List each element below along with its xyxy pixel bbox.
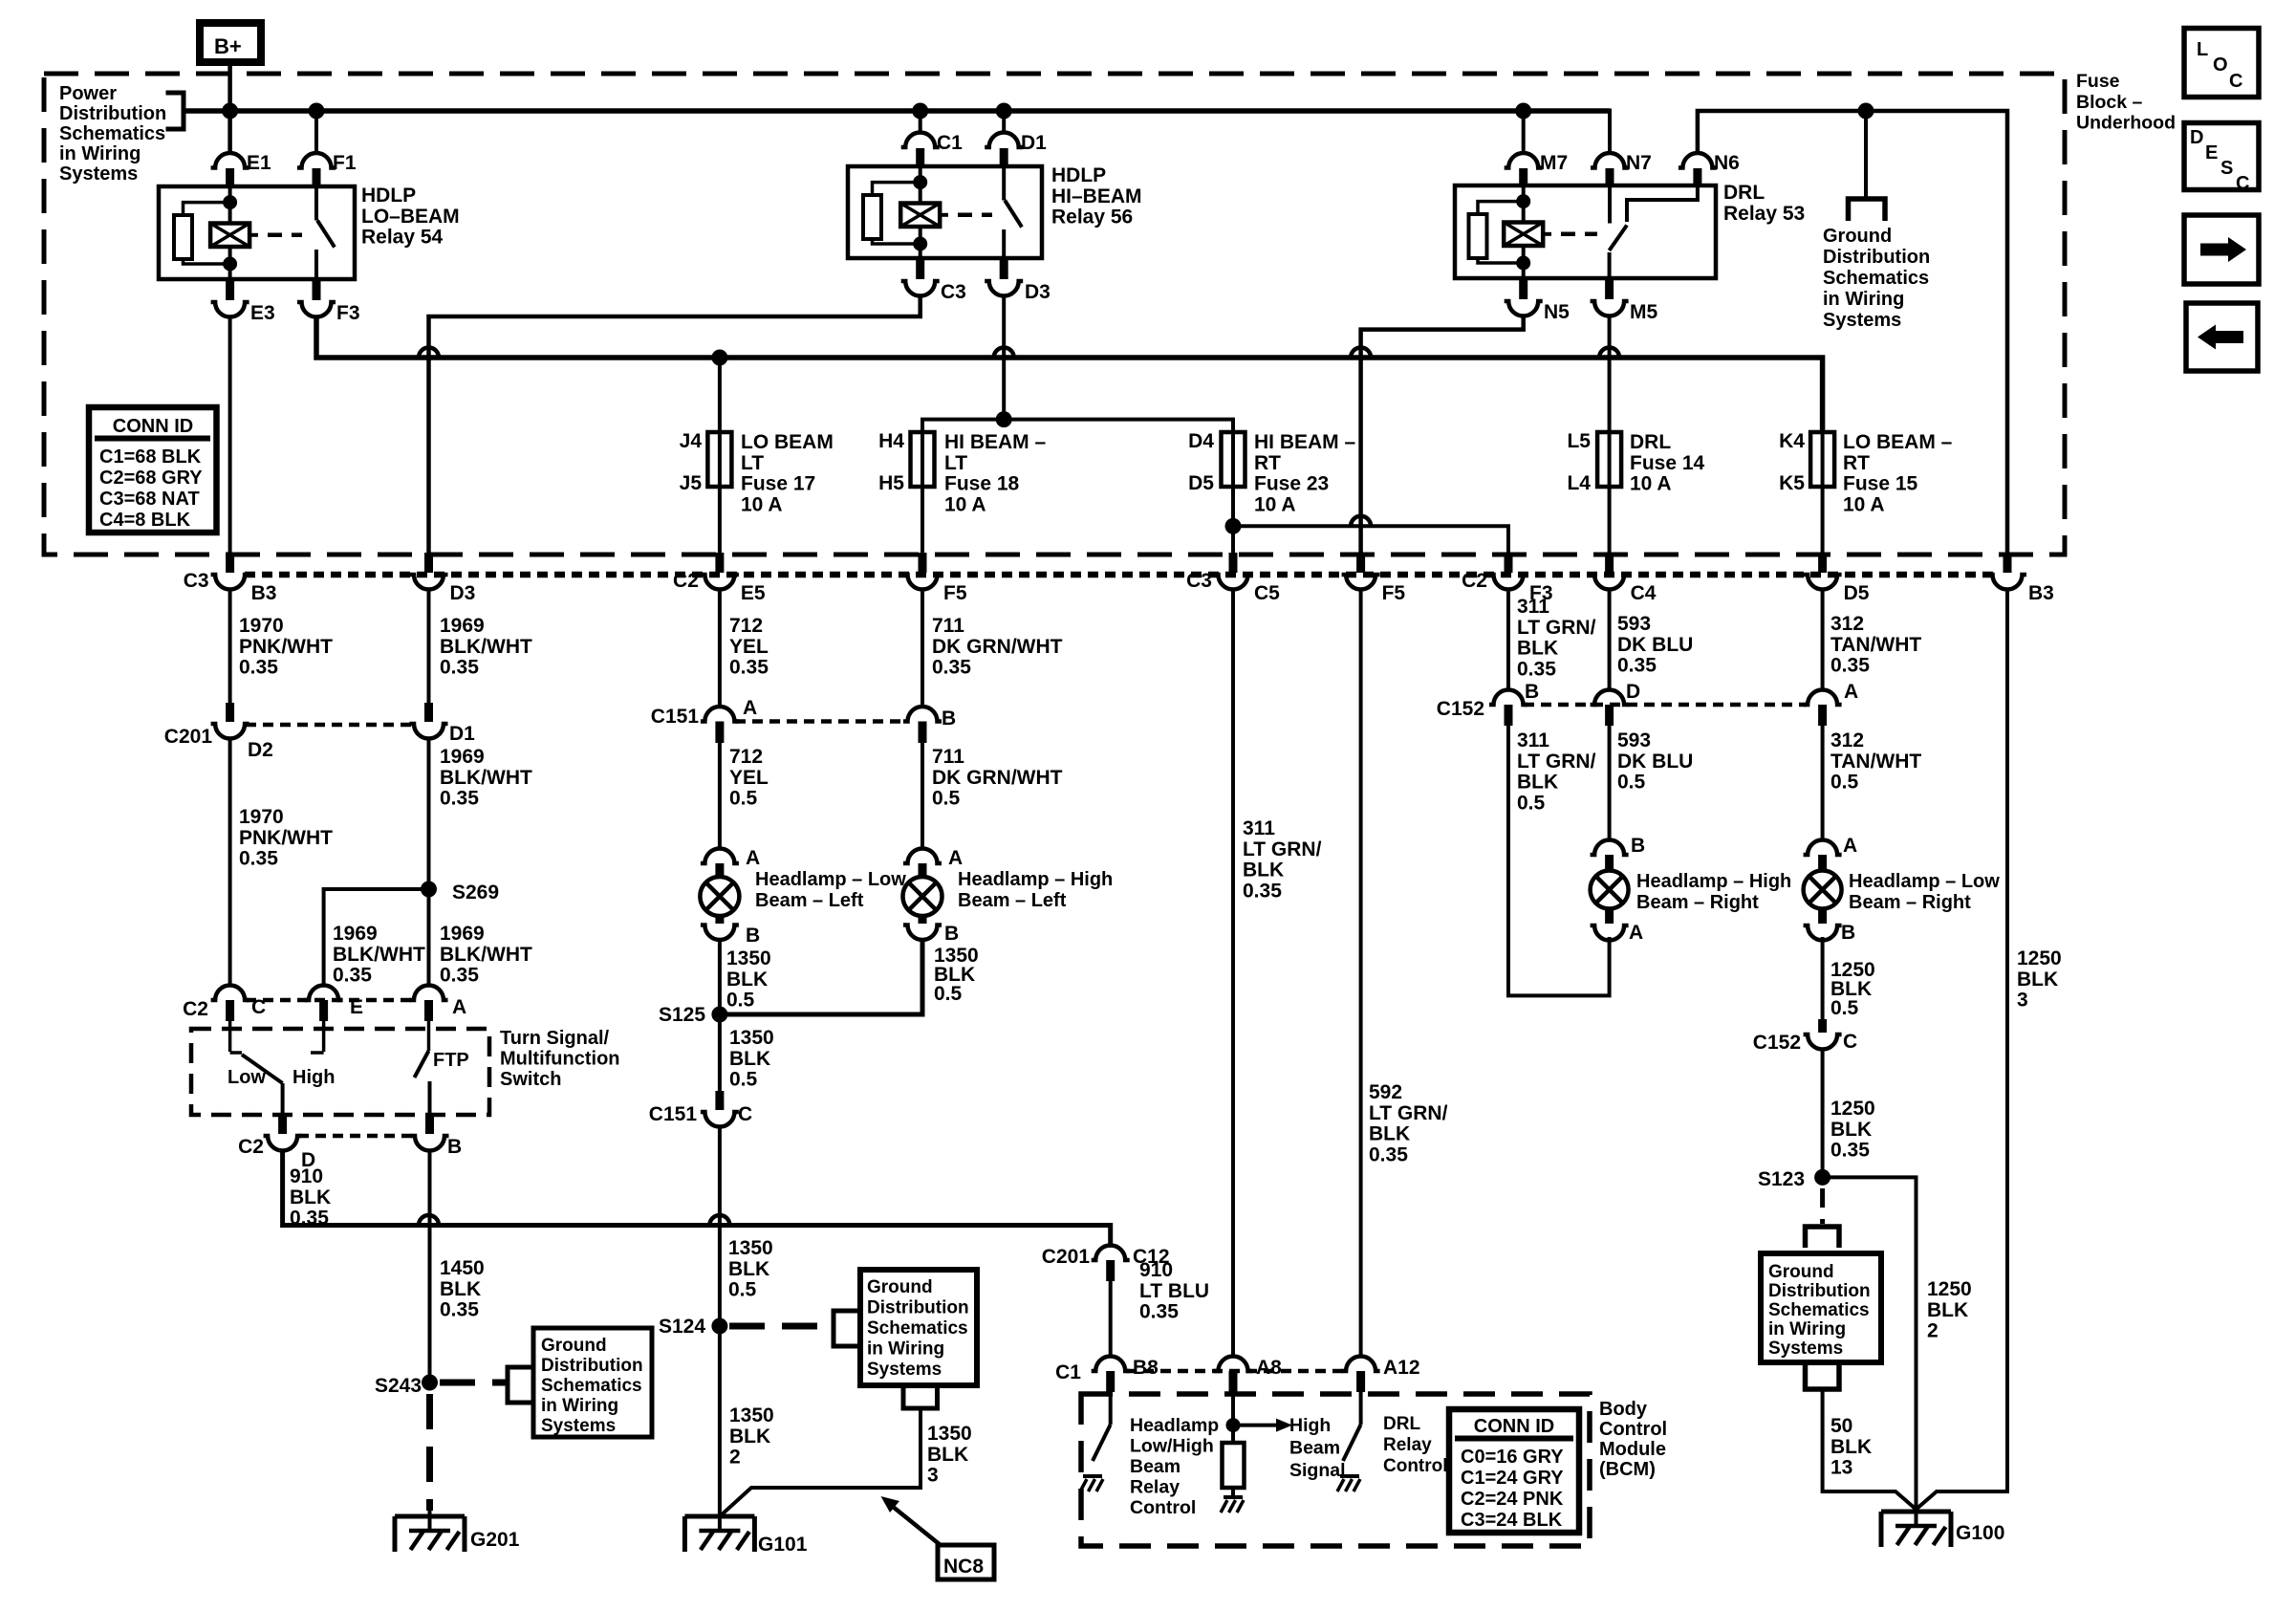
bracket above GDS right box (1806, 1227, 1840, 1248)
connector BCM row dashed line (1126, 1369, 1345, 1374)
dashed stub S123 to GDS bracket (1820, 1188, 1825, 1224)
svg-text:RT: RT (1254, 452, 1281, 474)
svg-text:0.5: 0.5 (729, 788, 758, 810)
wire 1250 BLK to S123 (1821, 1050, 1825, 1177)
svg-text:0.5: 0.5 (726, 990, 755, 1012)
label C (C152 pin) (1843, 1031, 1857, 1053)
svg-text:M7: M7 (1540, 152, 1568, 174)
svg-text:910: 910 (1139, 1259, 1173, 1281)
svg-text:HDLP: HDLP (361, 185, 416, 207)
svg-text:Schematics: Schematics (1768, 1300, 1870, 1320)
wire 910 LT BLU (1109, 1281, 1113, 1358)
svg-text:Turn Signal/: Turn Signal/ (500, 1028, 610, 1049)
svg-text:TAN/WHT: TAN/WHT (1830, 634, 1921, 656)
svg-text:Ground: Ground (867, 1277, 933, 1297)
svg-text:711: 711 (932, 746, 964, 768)
crossover bump D5 line over F5 drop (1351, 516, 1371, 527)
svg-text:D: D (2190, 127, 2203, 148)
wire 1350 BLK to C151 C (718, 1014, 722, 1091)
svg-text:Schematics: Schematics (59, 123, 165, 144)
svg-text:C201: C201 (164, 726, 213, 748)
bulb headlamp high beam left (903, 877, 942, 916)
svg-text:BLK: BLK (1830, 1119, 1872, 1141)
connector A (headlamp high left) (903, 849, 942, 878)
connector pin E3 (relay 54) (211, 279, 249, 317)
svg-text:B: B (1525, 681, 1539, 703)
label C152 (1437, 698, 1484, 720)
label C2 (switch row) (183, 998, 208, 1020)
label 1250 BLK 2 (1927, 1278, 1972, 1342)
svg-text:S243: S243 (375, 1375, 422, 1397)
label G100 (1956, 1522, 2004, 1544)
svg-text:2: 2 (729, 1447, 741, 1469)
label C201 (C12 row) (1042, 1246, 1091, 1268)
svg-text:712: 712 (729, 746, 763, 768)
wire 593 lower (C152 D to high right B) (1608, 726, 1612, 841)
label G101 (758, 1534, 808, 1556)
svg-text:PNK/WHT: PNK/WHT (239, 636, 333, 658)
svg-text:D1: D1 (1021, 132, 1047, 154)
wire L4 fuse output (1608, 487, 1612, 555)
label A (high left bulb) (948, 847, 963, 869)
label B (low left bulb) (746, 925, 760, 947)
svg-text:0.5: 0.5 (728, 1279, 757, 1301)
BCM dashed box (1081, 1394, 1590, 1546)
label High (292, 1067, 335, 1088)
svg-text:13: 13 (1830, 1457, 1852, 1479)
wire 311 lower (C152 B to high right A) (1508, 726, 1610, 995)
label 1969 BLK/WHT 0.35 (middle) (440, 746, 532, 810)
svg-text:LT GRN/: LT GRN/ (1517, 617, 1596, 639)
bracket below GDS right box (1806, 1362, 1840, 1389)
dashed wire S243 to ground ref (440, 1380, 507, 1386)
svg-text:J5: J5 (680, 472, 703, 494)
wire 593 upper (C4 to C152 D) (1608, 589, 1612, 691)
wire 312 upper (D5 to C152 A) (1821, 589, 1825, 691)
svg-text:Ground: Ground (1768, 1262, 1834, 1282)
label A (low left bulb) (746, 847, 760, 869)
svg-text:C5: C5 (1254, 582, 1280, 604)
svg-text:B+: B+ (214, 34, 242, 58)
svg-text:711: 711 (932, 615, 964, 637)
label 593 DK BLU 0.5 (1617, 729, 1693, 794)
label G201 (470, 1529, 520, 1551)
BCM B8 switch wire (1109, 1392, 1113, 1425)
label D1 (1021, 132, 1047, 154)
svg-text:712: 712 (729, 615, 763, 637)
switch FTP contact upper (427, 1021, 431, 1051)
label D1 (C201 pin) (449, 723, 475, 745)
label Headlamp - Low Beam - Left (755, 869, 906, 911)
svg-text:D4: D4 (1188, 430, 1214, 452)
svg-text:Control: Control (1130, 1497, 1196, 1518)
relay 56 linkage dashed (958, 213, 992, 218)
svg-text:0.5: 0.5 (1517, 792, 1546, 814)
connector C152|B (1489, 690, 1527, 727)
label E (pin) (350, 996, 363, 1018)
wire 1350 BLK to S124 (718, 1127, 722, 1326)
svg-text:C3: C3 (941, 281, 966, 303)
switch common output wire (281, 1083, 285, 1115)
svg-text:Systems: Systems (541, 1416, 616, 1436)
connector A (headlamp low left) (701, 849, 739, 878)
connector A (multifunction switch) (410, 986, 448, 1021)
label 712 YEL 0.5 (729, 746, 769, 810)
label GDS text (bottom left) (541, 1336, 643, 1436)
junction dot bus at F1 (309, 103, 325, 120)
svg-text:LT GRN/: LT GRN/ (1243, 838, 1322, 860)
bulb headlamp low beam left (700, 877, 739, 916)
connector D1 (C201) (410, 703, 448, 738)
relay 54 box HDLP LO-BEAM (159, 186, 355, 279)
wire bus corner drop to N7 (1608, 109, 1612, 154)
svg-text:Distribution: Distribution (1768, 1281, 1871, 1301)
connector C152 row dashed line (1524, 703, 1807, 708)
connector C2|C (multifunction switch) (211, 986, 249, 1022)
svg-text:Systems: Systems (867, 1360, 942, 1380)
wire G100 stem (1915, 1510, 1918, 1527)
svg-text:F5: F5 (1382, 582, 1406, 604)
svg-text:Relay 56: Relay 56 (1051, 207, 1133, 229)
connector pin M7 (relay 53) (1505, 153, 1543, 185)
BCM sense resistor (1223, 1426, 1245, 1488)
label K5 (1779, 472, 1805, 494)
svg-text:10 A: 10 A (741, 493, 783, 515)
svg-text:Distribution: Distribution (1823, 247, 1930, 268)
svg-text:C3=68 NAT: C3=68 NAT (99, 489, 200, 510)
label Body Control Module (BCM) (1599, 1399, 1667, 1480)
svg-text:DK BLU: DK BLU (1617, 634, 1693, 656)
svg-text:G201: G201 (470, 1529, 520, 1551)
fuse D4/D5 HI BEAM RT Fuse 23 (1222, 432, 1245, 487)
svg-text:0.35: 0.35 (1517, 658, 1556, 680)
svg-text:B: B (944, 923, 959, 945)
label M7 (1540, 152, 1568, 174)
svg-text:D: D (1626, 681, 1640, 703)
fuse block underhood dashed boundary box (44, 74, 2065, 555)
svg-text:B8: B8 (1133, 1357, 1159, 1379)
relay 56 switch lower contact (1002, 229, 1006, 258)
label 311 LT GRN/ BLK 0.35 (C5) (1243, 817, 1322, 902)
dashed wire S124 to ground ref (729, 1323, 830, 1330)
label C2 (connector C2|F3) (1462, 570, 1487, 592)
relay 53 coil (box with X) (1504, 223, 1543, 247)
svg-text:Distribution: Distribution (867, 1298, 969, 1318)
crossover bump F3 line over D3 drop (419, 348, 439, 359)
svg-text:B: B (447, 1136, 462, 1158)
splice S124 (711, 1318, 727, 1335)
relay 56 resistor branch wires (873, 183, 921, 244)
svg-text:S124: S124 (659, 1316, 705, 1338)
relay 53 coil junction dot top (1516, 194, 1530, 208)
svg-text:B: B (746, 925, 760, 947)
label 1350 BLK 0.5 (to S124) (728, 1237, 773, 1301)
svg-text:Headlamp – High: Headlamp – High (958, 869, 1113, 890)
relay 56 coil junction dot bottom (913, 237, 927, 251)
relay 54 coil feed wire (228, 186, 232, 224)
wire J5 fuse output (718, 487, 722, 555)
label 1969 BLK/WHT 0.35 (branch right) (440, 923, 532, 987)
connector C4 at fuse block output (1591, 553, 1629, 590)
svg-text:0.35: 0.35 (1139, 1301, 1179, 1323)
label 1250 BLK 3 (right) (2017, 947, 2062, 1012)
relay 54 switch upper contact (314, 186, 318, 221)
label 910 BLK 0.35 (290, 1165, 331, 1230)
connector A (headlamp low right) (1804, 840, 1842, 872)
label Headlamp Low/High Beam Relay Control (1130, 1415, 1219, 1518)
svg-text:910: 910 (290, 1165, 323, 1187)
fuse H4/H5 HI BEAM LT Fuse 18 (911, 432, 935, 487)
relay 54 switch lower contact (314, 250, 318, 279)
svg-text:A: A (1844, 681, 1858, 703)
svg-text:E: E (2205, 142, 2218, 163)
label N6 (1714, 152, 1740, 174)
svg-text:in Wiring: in Wiring (1823, 289, 1904, 310)
svg-text:0.5: 0.5 (1830, 997, 1859, 1019)
ground G100 (1881, 1512, 1951, 1547)
label A (C151 pin) (743, 697, 757, 719)
relay 54 resistor (174, 215, 192, 259)
svg-text:0.5: 0.5 (932, 788, 961, 810)
svg-text:Signal: Signal (1289, 1460, 1346, 1481)
wire 1350 BLK 3 from GDS (720, 1408, 921, 1516)
svg-text:C2=68 GRY: C2=68 GRY (99, 468, 203, 489)
svg-text:0.5: 0.5 (1617, 772, 1646, 794)
svg-text:BLK: BLK (1369, 1123, 1410, 1145)
junction dot high beam signal (1226, 1418, 1241, 1432)
svg-text:LT GRN/: LT GRN/ (1369, 1102, 1448, 1124)
connector pin F3 (relay 54) (297, 279, 336, 317)
junction dot N6 line at ground-distribution tap (1858, 103, 1874, 120)
label F1 (333, 152, 357, 174)
DESC reference box (2184, 123, 2259, 195)
label GDS text (bottom right) (1768, 1262, 1871, 1359)
label 593 DK BLU 0.35 (1617, 613, 1693, 677)
svg-text:E3: E3 (250, 302, 275, 324)
svg-text:593: 593 (1617, 613, 1651, 635)
label C (C151 pin) (738, 1103, 752, 1125)
svg-text:3: 3 (927, 1465, 939, 1487)
label 592 LT GRN/ BLK 0.35 (1369, 1081, 1448, 1165)
label D5 (pin) (1844, 582, 1870, 604)
connector E (multifunction switch) (305, 986, 343, 1022)
connector C2|E5 at fuse block output (701, 553, 739, 590)
svg-text:1350: 1350 (726, 947, 771, 969)
back arrow box (2186, 303, 2258, 371)
connector pin N5 (relay 53) (1505, 278, 1543, 316)
svg-text:A8: A8 (1256, 1357, 1282, 1379)
label DRL Relay Control (1383, 1414, 1448, 1476)
svg-text:Systems: Systems (1823, 310, 1901, 331)
connector pin N7 (relay 53) (1591, 153, 1629, 185)
connector B (headlamp low right) (1804, 908, 1842, 940)
BCM A12 switch blade (1343, 1425, 1361, 1461)
turn signal multifunction switch dashed box (191, 1029, 489, 1115)
label D3 (relay 56 pin) (1025, 281, 1051, 303)
svg-text:10 A: 10 A (1254, 493, 1296, 515)
label 50 BLK 13 (1830, 1415, 1872, 1479)
svg-text:E: E (350, 996, 363, 1018)
label High Beam Signal (1289, 1415, 1346, 1481)
wire 712 YEL upper (718, 589, 722, 707)
wire 1970 PNK/WHT lower (228, 739, 232, 985)
connector A (C152) (1804, 690, 1842, 727)
connector D (C152) (1591, 690, 1629, 727)
svg-text:Fuse 15: Fuse 15 (1843, 473, 1918, 495)
wire 712 YEL lower (718, 743, 722, 849)
svg-text:CONN ID: CONN ID (113, 416, 193, 437)
svg-text:DRL: DRL (1630, 431, 1671, 453)
bracket ground ref (S243) (508, 1367, 533, 1403)
svg-text:G100: G100 (1956, 1522, 2004, 1544)
svg-text:B3: B3 (251, 582, 277, 604)
svg-text:N6: N6 (1714, 152, 1740, 174)
label Low (227, 1067, 266, 1088)
wire F3 distribution line (316, 316, 1823, 432)
wire N5 to F5 column (1361, 316, 1524, 555)
label N7 (1626, 152, 1652, 174)
label DRL Fuse 14 10 A (1630, 431, 1705, 495)
svg-text:BLK/WHT: BLK/WHT (333, 944, 425, 966)
label D3 (pin) (450, 582, 476, 604)
label 1350 BLK 0.5 (low left) (726, 947, 771, 1012)
wire relay56 D3 to hi-beam fuses (1002, 297, 1006, 420)
svg-text:M5: M5 (1630, 301, 1657, 323)
svg-text:O: O (2213, 54, 2228, 76)
label F3 (pin) (1529, 582, 1553, 604)
svg-text:B: B (1841, 922, 1855, 944)
label C152 (C row) (1753, 1032, 1801, 1054)
svg-text:DRL: DRL (1723, 182, 1765, 204)
label F3 (336, 302, 360, 324)
label E3 (250, 302, 275, 324)
svg-text:0.35: 0.35 (440, 788, 479, 810)
svg-text:BLK/WHT: BLK/WHT (440, 767, 532, 789)
svg-text:C151: C151 (651, 706, 700, 728)
svg-text:A: A (746, 847, 760, 869)
svg-text:D3: D3 (450, 582, 476, 604)
connector pin E1 (relay 54) (211, 153, 249, 185)
junction dot bus at M7 (1515, 103, 1531, 120)
label N5 (1544, 301, 1570, 323)
svg-text:312: 312 (1830, 729, 1864, 751)
svg-text:C0=16 GRY: C0=16 GRY (1461, 1447, 1564, 1468)
label Power Distribution Schematics in Wiring Systems (59, 83, 166, 185)
label A12 (1383, 1357, 1420, 1379)
svg-text:YEL: YEL (729, 636, 769, 658)
wire 1969 BLK/WHT to S269 (427, 739, 431, 889)
wire 711 DK GRN/WHT upper (921, 589, 924, 707)
relay 56 coil stub right (940, 213, 948, 217)
relay 56 switch upper contact (1002, 166, 1006, 201)
svg-text:(BCM): (BCM) (1599, 1459, 1656, 1480)
svg-text:C3: C3 (184, 570, 209, 592)
relay 53 switch blade (1610, 226, 1628, 251)
bracket ground distribution schematics (top right) (1849, 199, 1886, 221)
svg-text:B: B (942, 708, 956, 729)
svg-text:C151: C151 (649, 1103, 698, 1125)
switch FTP output wire (428, 1081, 432, 1115)
crossover bump 910 line over 1450 wire (419, 1215, 439, 1226)
svg-text:0.35: 0.35 (239, 657, 278, 679)
svg-text:Low/High: Low/High (1130, 1436, 1214, 1457)
svg-text:HI BEAM –: HI BEAM – (944, 431, 1047, 453)
svg-text:Headlamp – Low: Headlamp – Low (1849, 871, 2000, 892)
wire 50 BLK 13 to G100 (1823, 1389, 1917, 1510)
label 1970 PNK/WHT 0.35 (upper) (239, 615, 333, 679)
wire hi-beam fuse feed branches (922, 420, 1233, 432)
BCM A12 wire (1359, 1392, 1363, 1425)
svg-text:311: 311 (1243, 817, 1275, 839)
svg-text:1450: 1450 (440, 1257, 485, 1279)
wire K5 fuse output (1821, 487, 1825, 555)
svg-text:0.35: 0.35 (239, 848, 278, 870)
svg-text:in Wiring: in Wiring (867, 1339, 944, 1360)
svg-text:TAN/WHT: TAN/WHT (1830, 751, 1921, 773)
connector A8 (BCM) (1214, 1357, 1252, 1393)
connector B3 at fuse block output (1988, 553, 2026, 590)
label K4 (1779, 430, 1805, 452)
svg-text:B: B (1631, 835, 1645, 857)
wire 311 upper (F3 to C152 B) (1506, 589, 1510, 691)
svg-text:F1: F1 (333, 152, 357, 174)
label B3 (pin) (251, 582, 277, 604)
svg-text:LT: LT (741, 452, 764, 474)
label F5 (pin) (1382, 582, 1406, 604)
svg-text:C2=24 PNK: C2=24 PNK (1461, 1489, 1564, 1510)
NC8 box (938, 1545, 994, 1579)
label C151 (651, 706, 700, 728)
svg-text:BLK: BLK (440, 1278, 481, 1300)
crossover bump F3 line over D3 relay56 drop (994, 348, 1014, 359)
bulb headlamp high beam right (1591, 871, 1629, 909)
wire 311 LT GRN/BLK (C5 to A8) (1231, 589, 1235, 1358)
wire 1969 BLK/WHT below S269 (427, 889, 431, 985)
svg-text:N7: N7 (1626, 152, 1652, 174)
label H5 (878, 472, 904, 494)
ground distribution schematics box (bottom right) (1761, 1253, 1881, 1362)
connector B (headlamp high right) (1591, 840, 1629, 872)
connector F5 at fuse block output (1342, 553, 1380, 590)
label A8 (1256, 1357, 1282, 1379)
label C3 (connector C3|C5) (1186, 570, 1212, 592)
label DRL Relay 53 (1723, 182, 1805, 225)
svg-text:J4: J4 (680, 430, 703, 452)
svg-text:Control: Control (1599, 1419, 1667, 1440)
label C (pin) (251, 996, 266, 1018)
label D (pin) (301, 1149, 315, 1171)
label C151 (C row) (649, 1103, 698, 1125)
wire 1250 BLK (low right B to C152 C) (1821, 937, 1825, 1021)
wire S123 branch 1250 BLK 2 (1823, 1177, 1917, 1509)
connector C151|C (701, 1091, 739, 1127)
relay 54 coil junction dot bottom (223, 257, 237, 272)
label D4 (1188, 430, 1214, 452)
svg-text:LT: LT (944, 452, 967, 474)
svg-text:in Wiring: in Wiring (59, 143, 141, 164)
ground G101 (684, 1516, 754, 1552)
svg-text:BLK: BLK (1927, 1299, 1968, 1321)
relay 56 coil junction dot top (913, 175, 927, 189)
connector C151 row dashed line (735, 719, 907, 724)
label 1350 BLK 0.5 (high left) (934, 945, 979, 1005)
wire S269 branch to E contact (324, 889, 429, 985)
svg-text:F5: F5 (943, 582, 967, 604)
svg-text:BLK: BLK (729, 1048, 770, 1070)
svg-text:High: High (1289, 1415, 1331, 1436)
svg-text:Control: Control (1383, 1456, 1448, 1476)
svg-text:0.35: 0.35 (729, 657, 769, 679)
